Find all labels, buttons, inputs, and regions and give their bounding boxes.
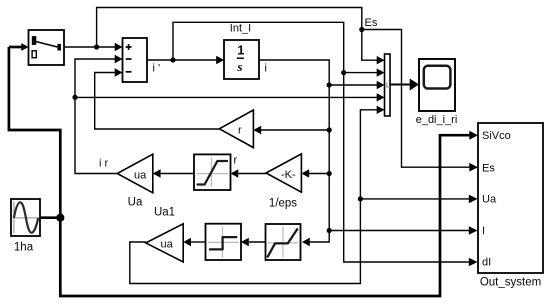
- svg-text:s: s: [236, 59, 242, 74]
- wire bottom saturation output to relay input: [249, 241, 266, 243]
- wire ua output ir feedback to sum minus 1: [75, 59, 117, 174]
- wire i branch to mux input 3: [329, 84, 377, 86]
- dead zone saturation block: [266, 224, 301, 260]
- wire -K- output to mid saturation input: [238, 173, 266, 175]
- wire thick feedback loop: sine junction to switch input and bottom bus to SiVco: [9, 47, 471, 296]
- wire mid saturation output to gain ua input: [161, 173, 194, 175]
- svg-text:Out_system: Out_system: [480, 277, 541, 289]
- wire Es node right and down to Out_system Es port: [362, 30, 470, 168]
- svg-text:1/eps: 1/eps: [269, 198, 297, 210]
- svg-text:ua: ua: [134, 170, 147, 182]
- svg-text:I: I: [482, 225, 485, 237]
- node Es: [359, 27, 364, 32]
- node i' branch: [170, 57, 175, 62]
- gain r: [219, 110, 253, 148]
- wire Es node down to mux input 1: [362, 30, 377, 61]
- wire ua1 branch to Out_system Ua port: [360, 198, 469, 200]
- svg-text:i: i: [265, 63, 267, 75]
- svg-text:1: 1: [237, 43, 244, 58]
- svg-text:Int_I: Int_I: [230, 23, 251, 35]
- node ua1 to Ua port: [358, 196, 363, 201]
- wire i branch to Out_system I port: [329, 230, 470, 232]
- svg-text:e_di_i_ri: e_di_i_ri: [416, 114, 458, 126]
- node i to gain 1/eps: [327, 171, 332, 176]
- svg-text:Ua: Ua: [128, 197, 143, 209]
- gain ua (Ua): [117, 154, 153, 193]
- svg-text:r: r: [238, 125, 242, 137]
- wire mux output to scope: [390, 84, 410, 86]
- wire gain r output feedback to sum minus 2: [95, 73, 220, 130]
- node ir branch: [72, 95, 77, 100]
- arrow into Out_system SiVco port: [469, 131, 478, 140]
- node switch output branch: [94, 44, 99, 49]
- sine wave source 1ha: [11, 199, 40, 236]
- junction big dot at sine output: [56, 214, 64, 222]
- mux block: [385, 54, 391, 116]
- svg-text:-K-: -K-: [281, 169, 296, 181]
- wire i branch to -K- input: [309, 173, 329, 175]
- manual switch block: [29, 30, 65, 65]
- svg-text:dI: dI: [482, 257, 491, 269]
- node i to gain r: [327, 127, 332, 132]
- integrator Int_I: [224, 40, 259, 79]
- wire integrator output i down right side to bottom saturation input: [259, 60, 329, 242]
- wire switch output to sum + input: [64, 46, 115, 48]
- node i to mux: [327, 82, 332, 87]
- relay block: [206, 224, 242, 260]
- node di to mux: [341, 70, 346, 75]
- wire ir branch to mux input 4: [75, 96, 377, 98]
- svg-text:i r: i r: [99, 158, 109, 170]
- sum block: [123, 38, 148, 82]
- wire relay output to gain ua1 input: [191, 241, 206, 243]
- svg-text:i ': i ': [153, 63, 161, 75]
- svg-text:Ua1: Ua1: [154, 207, 175, 219]
- wire di branch to mux input 2: [344, 72, 377, 74]
- wire line A: switch output up over top to Es node: [97, 8, 362, 48]
- saturation block with r output: [194, 154, 231, 190]
- svg-text:Ua: Ua: [482, 194, 497, 206]
- gain ua1: [146, 224, 183, 262]
- gain -K- (1/eps): [266, 154, 301, 192]
- wire line B: i' up over integrator, down right side to dI port: [173, 22, 470, 262]
- arrow into switch: [21, 43, 28, 51]
- svg-text:Es: Es: [365, 17, 378, 29]
- wire i branch to gain r input: [261, 129, 329, 131]
- wire ua1 loop: output around bottom and up to mux input 5: [130, 110, 377, 284]
- node i to I port: [327, 228, 332, 233]
- svg-text:Es: Es: [482, 163, 495, 175]
- svg-text:1ha: 1ha: [14, 242, 34, 254]
- svg-text:r: r: [234, 155, 238, 167]
- wire sum output to integrator input: [147, 59, 217, 61]
- scope block e_di_i_ri: [419, 59, 455, 111]
- svg-text:ua: ua: [161, 239, 174, 251]
- svg-text:SiVco: SiVco: [482, 130, 511, 142]
- subsystem Out_system: [478, 123, 543, 273]
